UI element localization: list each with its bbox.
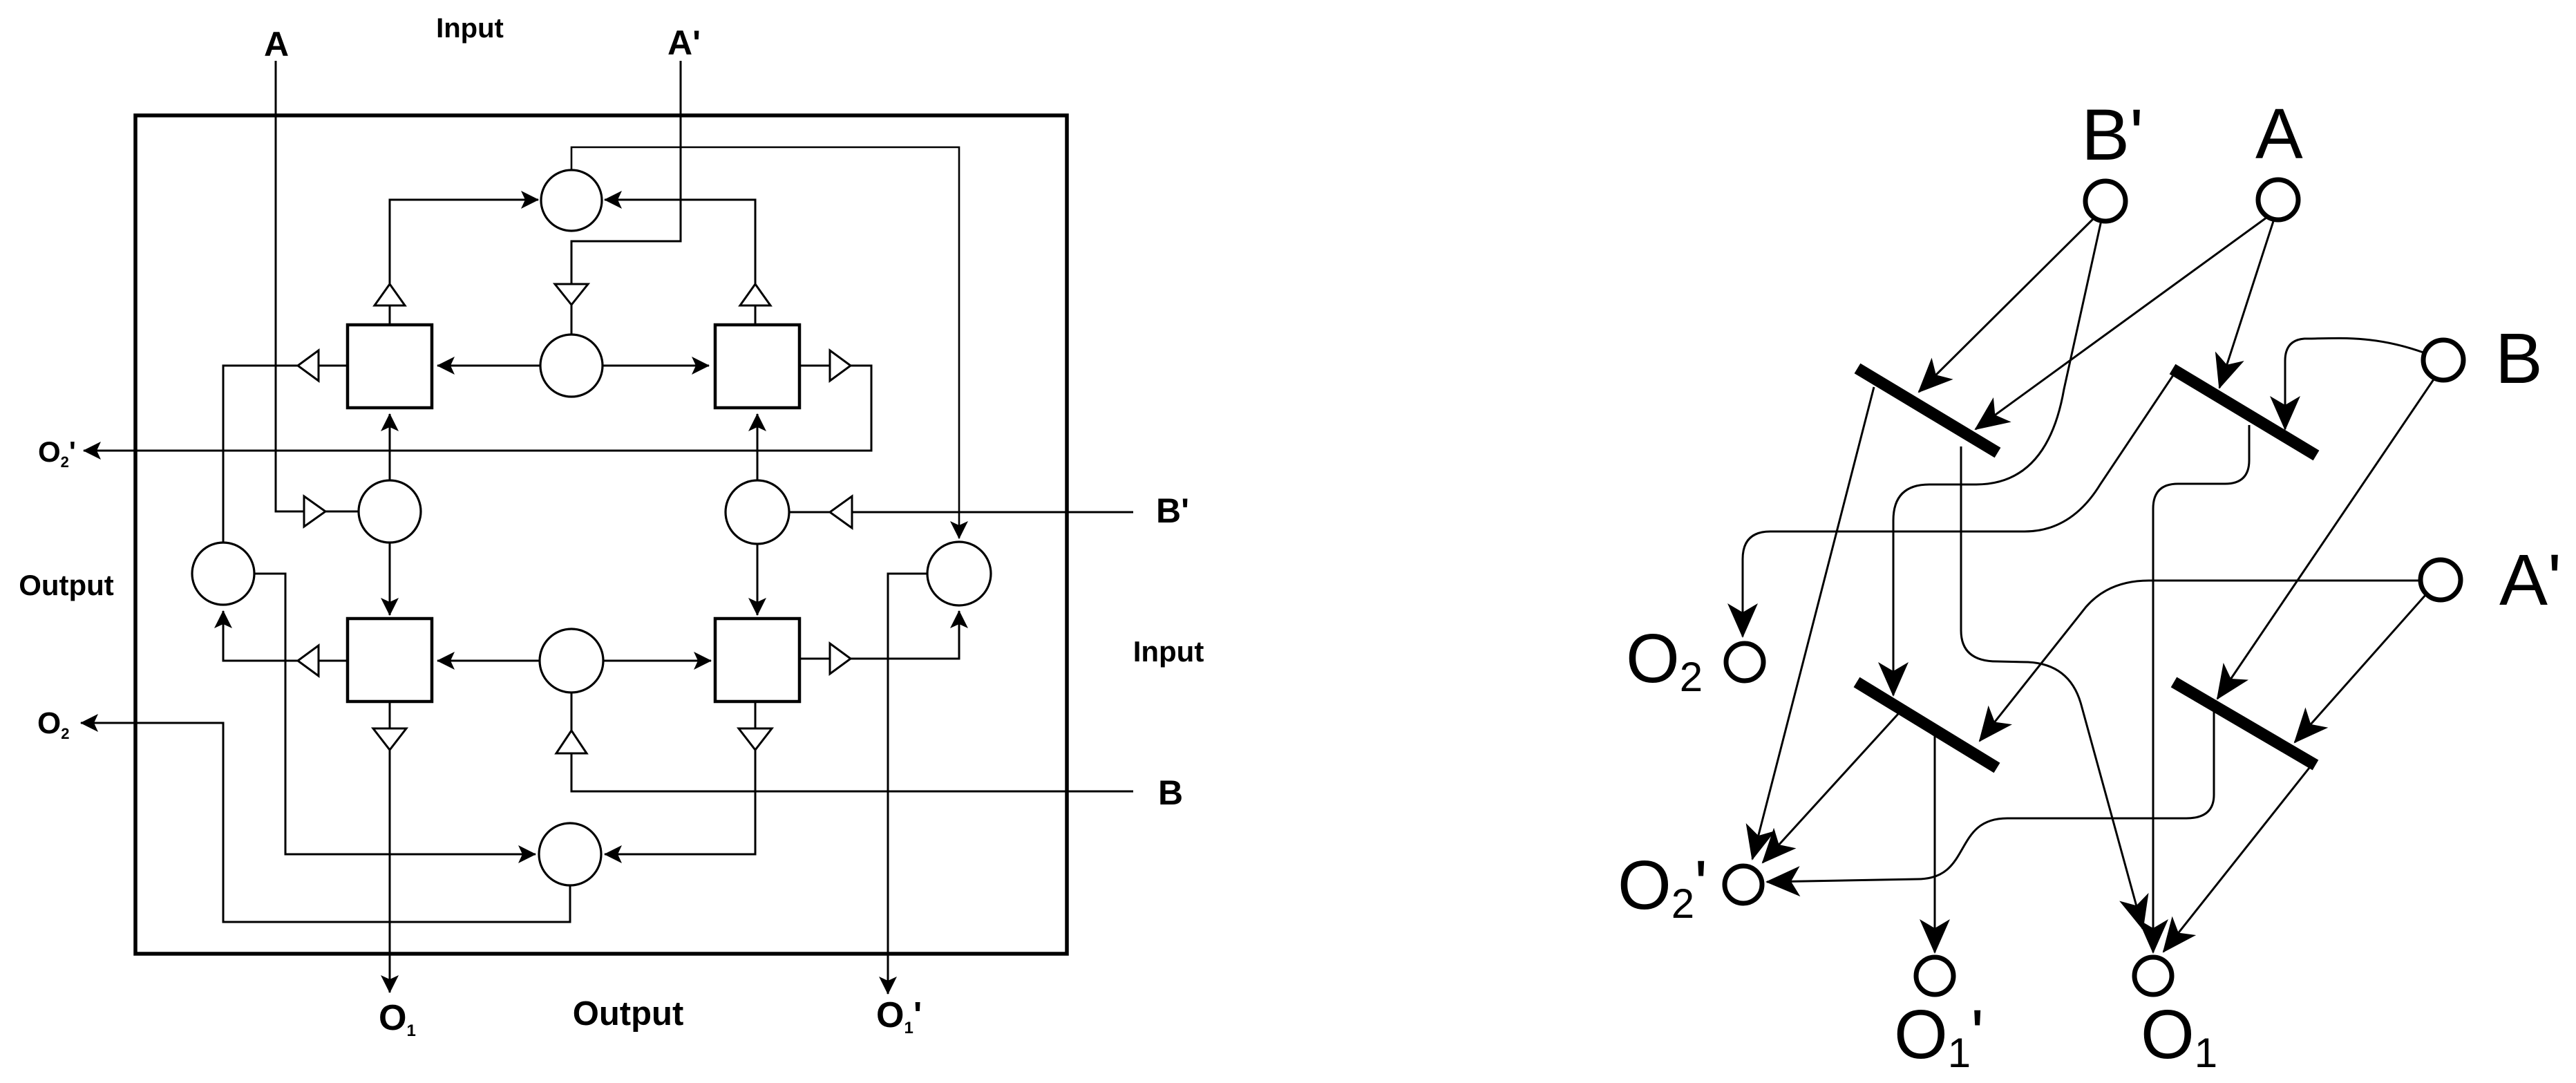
beamsplitter bar BS4 (2174, 682, 2315, 765)
wire A to BS1 (1976, 216, 2269, 429)
square S1 (348, 325, 432, 408)
wire BS3 to O2' (1763, 706, 1905, 863)
wire input B (571, 753, 1133, 791)
wire A' to BS4 (2295, 594, 2426, 742)
node C3 circle (A fanout) (359, 480, 421, 543)
node C7 circle (bottom junction) (539, 823, 601, 885)
right triangle of S4 (830, 643, 851, 674)
wire A' triangle to C2 (571, 305, 573, 335)
svg-text:B': B' (2081, 95, 2143, 176)
inverter-down triangle on A' (555, 284, 588, 305)
wire C3 to S1 bottom (389, 414, 391, 480)
wire BS2 to O2 (1743, 373, 2175, 637)
beamsplitter bar BS3 (1857, 682, 1997, 768)
wire S4 bottom to triangle (755, 701, 757, 728)
wire BS1 to O1 (1961, 446, 2143, 929)
node C4 circle (B' fanout) (726, 480, 789, 544)
wire C2 to S2 (603, 365, 709, 367)
outer box (135, 115, 1067, 954)
wire S4 to right triangle (799, 658, 830, 660)
svg-text:B': B' (1156, 491, 1189, 530)
node O1' (1916, 957, 1953, 995)
left triangle on B' (830, 496, 852, 528)
node A' (2421, 560, 2461, 600)
svg-text:O2': O2' (38, 435, 76, 471)
wire S3 buffer to C8 bottom (223, 611, 298, 661)
wire S1 triangle to C1 (390, 200, 538, 284)
wire B' triangle to C4 (789, 511, 830, 514)
svg-text:Input: Input (436, 13, 504, 44)
svg-text:A: A (2255, 94, 2303, 173)
node B' (2085, 181, 2125, 221)
wire BS1 to O2' (1752, 387, 1874, 859)
wire S2 to right triangle (799, 365, 830, 367)
wire BS4 to O2' (1767, 701, 2214, 882)
svg-text:Output: Output (573, 995, 684, 1033)
square S3 (348, 619, 432, 701)
svg-text:A: A (264, 25, 289, 64)
node C8 circle (left junction) (192, 543, 254, 605)
up triangle above S2 (740, 284, 770, 305)
right triangle of S2 (830, 350, 851, 381)
wire A buffer to C3 (325, 511, 359, 513)
svg-text:B: B (1158, 773, 1183, 812)
wire C1 top to C5 (571, 147, 959, 538)
wire S2 top to triangle (755, 305, 757, 325)
wire input B' (852, 511, 1133, 514)
wire C6 to S4 (603, 660, 711, 662)
up triangle on B into C6 (556, 731, 587, 753)
svg-text:O1': O1' (876, 995, 922, 1037)
node A (2258, 180, 2298, 220)
left triangle of S1 (298, 350, 319, 381)
wire S2 buffer to O2' output (84, 366, 871, 451)
wire S3 bottom to triangle (389, 701, 391, 728)
wire input A vertical (276, 61, 304, 511)
wire S4 triangle to C7 (605, 750, 755, 854)
wire B to BS2 (2285, 338, 2423, 429)
node C2 circle (A' fanout) (540, 335, 603, 397)
wire S4 buffer to C5 bottom (851, 611, 959, 659)
wire S3 to left triangle (319, 660, 348, 662)
node C1 circle (top junction) (541, 170, 602, 231)
svg-text:A': A' (667, 23, 701, 62)
wire S2 triangle to C1 (605, 200, 755, 284)
wire B' to BS3 (1893, 220, 2101, 695)
down triangle below S3 (373, 728, 406, 750)
node O2 (1726, 643, 1763, 681)
wire B' to BS1 (1919, 216, 2096, 392)
down triangle below S4 (739, 728, 772, 750)
wire S1 to left triangle (319, 365, 348, 367)
wire B triangle to C6 (571, 693, 573, 731)
svg-text:Input: Input (1133, 635, 1204, 668)
wire A to BS2 (2219, 219, 2274, 388)
wire C8 to C7 (254, 574, 536, 854)
wire BS4 to O1 (2163, 764, 2312, 952)
square S2 (715, 325, 799, 408)
buffer triangle on A into C3 (304, 496, 325, 527)
wire C5 to O1' output (888, 574, 927, 994)
node B (2423, 340, 2463, 380)
wire S1 top to triangle (389, 305, 391, 325)
wire B to BS4 (2217, 379, 2434, 699)
node O1 (2134, 957, 2172, 995)
wire C3 to S3 top (389, 543, 391, 615)
wire BS3 to O1' (1934, 731, 1936, 952)
wire A' to BS3 (1980, 581, 2420, 741)
svg-text:A': A' (2499, 540, 2561, 621)
svg-text:O2': O2' (1618, 847, 1707, 927)
beamsplitter bar BS1 (1857, 368, 1998, 453)
node O2' (1725, 866, 1762, 903)
node C6 circle (B fanout) (540, 629, 603, 693)
left triangle of S3 (298, 646, 319, 676)
wire C6 to S3 (437, 660, 540, 662)
node C5 circle (O1' junction) (927, 542, 991, 605)
up triangle above S1 (375, 284, 405, 305)
wire S3 triangle to O1 output (389, 750, 391, 992)
svg-text:B: B (2495, 319, 2543, 398)
wire C4 to S4 top (757, 544, 759, 615)
svg-text:O1': O1' (1894, 996, 1984, 1076)
svg-text:Output: Output (19, 569, 114, 601)
wire C7 to O2 output (81, 723, 570, 922)
wire BS2 to O1 (2153, 425, 2249, 952)
square S4 (715, 619, 799, 701)
wire C2 to S1 (437, 365, 540, 367)
beamsplitter bar BS2 (2172, 369, 2316, 455)
wire S1 buffer to C8 top (223, 366, 298, 543)
wire C4 to S2 bottom (757, 414, 759, 480)
wire input A' vertical (571, 61, 681, 284)
